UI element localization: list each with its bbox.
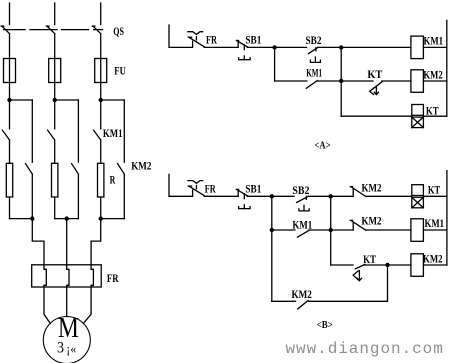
wire KM2 NC to KM1 coil circuit B: [366, 229, 411, 231]
node junction L3: [99, 98, 103, 102]
svg-text:SB2: SB2: [292, 185, 309, 197]
contactor KM2 bypass contact pole 2: [72, 164, 79, 174]
wire KT coil to right rail circuit B: [423, 195, 447, 197]
wire node to KM2 coil circuit B: [388, 264, 411, 266]
wire KT contact to node circuit B: [365, 264, 388, 266]
svg-text:<B>: <B>: [317, 320, 333, 331]
wire KM1 coil to right rail circuit B: [423, 229, 447, 231]
node junction L1: [7, 98, 11, 102]
thermal relay FR contact circuit A: [188, 32, 204, 48]
time relay KT delayed contact circuit A: [370, 82, 383, 95]
svg-text:KM2: KM2: [292, 289, 312, 301]
contactor KM2 auxiliary contact bottom circuit B: [298, 301, 308, 309]
node A row1 right: [339, 45, 343, 49]
contactor KM1 auxiliary contact circuit A: [306, 81, 317, 89]
svg-text:FU: FU: [114, 65, 126, 77]
wire node to KM1 contact circuit B: [272, 229, 295, 231]
wire bypass branch vertical lower 1: [31, 174, 33, 218]
pushbutton SB1 stop circuit B: [236, 189, 250, 208]
svg-text:www.diangon.com: www.diangon.com: [286, 340, 444, 358]
wire to FR phase 3: [91, 219, 101, 265]
wire L3 QS to KM1: [100, 34, 102, 129]
wire bypass branch top 2: [55, 99, 79, 101]
wire bottom horizontal 3: [101, 218, 125, 220]
wire FR to SB1 circuit B: [204, 195, 238, 197]
wire mid rail circuit B: [330, 196, 332, 265]
wire left branch rail circuit B: [271, 196, 273, 230]
contactor KM2 NC contact circuit B row1: [350, 187, 366, 197]
wire right rail circuit A: [446, 20, 448, 116]
wire left rail circuit A: [340, 47, 342, 116]
FR heater element 2: [67, 265, 69, 287]
svg-text:KM2: KM2: [423, 253, 443, 265]
wire FR to SB1 circuit A: [204, 46, 238, 48]
wire KM2 holding branch left vertical circuit B: [271, 230, 273, 301]
contactor coil KM1 circuit B: [411, 219, 424, 242]
wire KM2 NC to KT coil circuit B: [366, 195, 412, 197]
node bottom junction 2: [65, 216, 69, 220]
thermal relay FR contact circuit B: [188, 181, 204, 197]
svg-text:KM1: KM1: [424, 36, 444, 48]
wire bypass branch vertical upper 2: [77, 100, 79, 162]
svg-text:3: 3: [57, 339, 64, 356]
wire KM2 coil to right rail circuit B: [423, 264, 447, 266]
disconnect switch QS pole 3: [92, 26, 100, 33]
wire bypass branch top 3: [101, 99, 125, 101]
wire to FR phase 2: [66, 219, 68, 265]
wire mid rail corner to KT contact circuit B: [331, 264, 353, 266]
contactor KM2 bypass contact pole 3: [118, 164, 125, 174]
node B row2 left: [270, 228, 274, 232]
wire FR to motor middle: [66, 287, 68, 317]
node junction L2: [53, 98, 57, 102]
svg-text:FR: FR: [206, 35, 217, 47]
disconnect switch QS pole 1: [1, 26, 9, 33]
pushbutton SB2 start circuit A: [309, 48, 321, 63]
contactor KM2 bypass contact pole 1: [26, 164, 33, 174]
fuse FU pole 2: [49, 59, 61, 83]
wire phase line L1 top: [9, 3, 11, 25]
node B row3: [385, 263, 389, 267]
contactor KM2 NC contact circuit B row2: [350, 220, 366, 230]
wire node to KM2 NC circuit B row2: [331, 229, 354, 231]
svg-text:SB2: SB2: [306, 35, 322, 47]
svg-text:FR: FR: [205, 184, 216, 196]
wire FR to motor right: [83, 287, 91, 324]
time relay coil KT circuit A upper box: [412, 105, 424, 116]
svg-text:KM2: KM2: [362, 215, 382, 227]
wire bottom horizontal 2: [55, 218, 79, 220]
wire KM1 coil to right rail circuit A: [423, 46, 446, 48]
wire right rail circuit B: [446, 171, 448, 265]
wire KM2 holding branch bottom right circuit B: [309, 265, 388, 301]
wire SB2 to node circuit B: [308, 195, 330, 197]
resistor R pole 2: [52, 163, 58, 197]
contactor KM1 main contact pole 2: [48, 130, 55, 140]
wire SB1 to node circuit A: [247, 46, 274, 48]
svg-text:KM2: KM2: [131, 160, 151, 172]
wire to FR phase 1: [32, 219, 44, 265]
wire SB2 to node circuit A: [318, 46, 342, 48]
contactor coil KM2 circuit A: [411, 70, 424, 93]
contactor coil KM1 circuit A: [411, 36, 424, 59]
wire FR to motor left: [44, 287, 50, 324]
wire KM1 contact to node circuit B: [309, 229, 331, 231]
time relay coil KT circuit A delay box with X: [412, 117, 424, 128]
wire node to SB2 circuit B: [272, 195, 294, 197]
disconnect switch QS pole 2: [46, 26, 54, 33]
wire R to bottom node pole 1: [9, 197, 11, 219]
wire KM2 coil to right rail circuit A: [423, 80, 446, 82]
svg-text:KT: KT: [426, 105, 439, 117]
node bottom junction 1: [30, 216, 34, 220]
svg-text:KM2: KM2: [362, 183, 382, 195]
wire R to bottom node pole 3: [100, 197, 102, 219]
wire bypass branch vertical lower 2: [77, 174, 79, 218]
wire KM1 to R pole 1: [9, 140, 11, 163]
wire node to KM2 NC circuit B row1: [331, 195, 354, 197]
svg-text:KM1: KM1: [103, 128, 123, 140]
svg-text:<A>: <A>: [315, 140, 331, 151]
wire left rail to KT coil circuit A: [341, 115, 412, 117]
time relay coil KT circuit B delay box with X: [412, 197, 424, 208]
svg-text:KT: KT: [363, 254, 376, 266]
pushbutton SB2 start circuit B: [297, 196, 310, 211]
wire KM1 holding branch down circuit A: [274, 47, 276, 81]
wire circuit B left supply stub: [169, 174, 192, 196]
contactor coil KM2 circuit B: [411, 254, 424, 276]
svg-text:KM2: KM2: [423, 70, 442, 82]
wire KM1 holding branch horizontal circuit A: [275, 80, 307, 82]
wire L1 QS to KM1: [9, 34, 11, 129]
wire KT contact to KM2 coil circuit A: [382, 80, 411, 82]
wire phase line L3 top: [100, 3, 102, 25]
wire KM1 to R pole 2: [54, 140, 56, 163]
node B row1 mid: [329, 194, 333, 198]
FR heater element 3: [91, 265, 93, 287]
wire bypass branch vertical upper 3: [123, 100, 125, 162]
node A row1 branch: [272, 45, 276, 49]
thermal overload relay FR box: [32, 265, 102, 287]
svg-text:R: R: [110, 175, 116, 187]
fuse FU pole 1: [4, 59, 16, 83]
svg-text:KM1: KM1: [425, 218, 445, 230]
wire bypass branch vertical upper 1: [31, 100, 33, 162]
time relay KT delayed contact circuit B: [353, 264, 365, 280]
QS mechanical linkage dashed line: [4, 29, 103, 31]
svg-text:KT: KT: [428, 184, 440, 196]
svg-text:FR: FR: [107, 273, 119, 285]
wire node to KM1 coil circuit A: [341, 46, 411, 48]
motor M circle: [43, 317, 90, 363]
svg-text:KM1: KM1: [306, 68, 322, 80]
wire KM2 holding branch bottom left circuit B: [272, 300, 296, 302]
wire SB1 to node circuit B: [247, 195, 271, 197]
wire node to KT contact circuit A: [341, 80, 373, 82]
wire bypass branch top 1: [10, 99, 33, 101]
wire L2 QS to KM1: [54, 34, 56, 129]
contactor KM1 main contact pole 1: [2, 130, 9, 140]
contactor KM1 auxiliary contact circuit B: [297, 230, 309, 237]
resistor R pole 3: [98, 163, 104, 197]
node B row2 mid: [329, 228, 333, 232]
FR heater element 1: [44, 265, 46, 287]
wire bottom horizontal 1: [10, 218, 33, 220]
resistor R pole 1: [6, 163, 12, 197]
pushbutton SB1 stop circuit A: [236, 41, 250, 60]
contactor KM1 main contact pole 3: [94, 130, 101, 140]
svg-text:¡«: ¡«: [66, 341, 76, 356]
wire KT coil to right rail circuit A: [423, 115, 446, 117]
node B row1 left: [270, 194, 274, 198]
wire phase line L2 top: [54, 3, 56, 25]
time relay coil KT circuit B upper box: [412, 185, 424, 196]
node bottom junction 3: [99, 216, 103, 220]
wire bypass branch vertical lower 3: [123, 174, 125, 218]
fuse FU pole 3: [95, 59, 107, 83]
wire node to SB2 circuit A: [275, 46, 307, 48]
svg-text:QS: QS: [113, 26, 124, 38]
svg-text:KM1: KM1: [292, 220, 312, 232]
wire R to bottom node pole 2: [54, 197, 56, 219]
wire KM1 to R pole 3: [100, 140, 102, 163]
node A row2: [339, 79, 343, 83]
svg-text:SB1: SB1: [245, 35, 261, 47]
wire KM1 contact to node circuit A: [317, 80, 341, 82]
wire circuit A left supply stub: [169, 25, 192, 47]
svg-text:KT: KT: [367, 69, 382, 81]
label 3-phase mark: [57, 339, 76, 356]
svg-text:SB1: SB1: [245, 184, 261, 196]
